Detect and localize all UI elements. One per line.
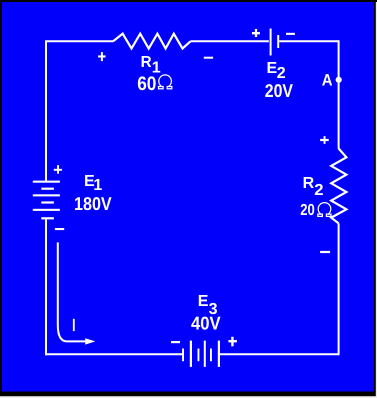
battery E2 label xyxy=(267,60,286,82)
resistor R2 xyxy=(331,149,346,224)
current arrow I xyxy=(58,242,96,344)
svg-text:20: 20 xyxy=(300,202,315,219)
resistor R2 minus sign xyxy=(320,251,330,253)
svg-text:R: R xyxy=(303,175,315,192)
battery E1 label xyxy=(84,173,102,194)
current label I xyxy=(73,319,75,331)
resistor R2 value 20 ohm xyxy=(300,202,331,219)
battery E3 minus sign xyxy=(171,341,180,343)
resistor R2 plus sign xyxy=(320,136,329,144)
svg-text:1: 1 xyxy=(93,177,102,194)
battery E1 xyxy=(33,181,60,220)
battery E3 plus sign xyxy=(228,337,237,347)
svg-text:R: R xyxy=(141,54,152,71)
wire top-middle segment xyxy=(190,40,268,42)
battery E1 plus sign xyxy=(54,165,62,174)
wire top-right segment xyxy=(279,40,338,42)
svg-text:60: 60 xyxy=(137,73,156,95)
svg-text:40V: 40V xyxy=(191,313,221,334)
svg-text:E: E xyxy=(198,293,209,310)
resistor R1 plus sign xyxy=(98,52,105,61)
wire right upper segment xyxy=(338,40,340,148)
wire bottom-right segment xyxy=(219,353,339,355)
battery E2 plus sign xyxy=(252,29,260,37)
svg-text:20V: 20V xyxy=(265,80,294,101)
svg-text:180V: 180V xyxy=(74,193,112,214)
resistor R1 minus sign xyxy=(204,57,213,59)
wire bottom-left segment xyxy=(45,353,183,355)
svg-text:2: 2 xyxy=(314,182,323,199)
resistor R1 xyxy=(113,34,190,49)
battery E1 minus sign xyxy=(55,228,64,230)
node A xyxy=(336,77,342,83)
svg-text:A: A xyxy=(322,72,333,90)
resistor R1 label xyxy=(141,54,161,76)
wire right lower segment xyxy=(338,223,340,355)
wire top-left segment xyxy=(46,41,113,181)
battery E2 minus sign xyxy=(286,33,295,35)
battery E2 xyxy=(270,29,280,56)
battery E3 xyxy=(182,341,220,367)
resistor R2 label xyxy=(303,175,324,199)
resistor R1 value 60 ohm xyxy=(137,73,172,95)
wire left lower segment xyxy=(45,219,47,355)
battery E3 label xyxy=(198,293,218,318)
